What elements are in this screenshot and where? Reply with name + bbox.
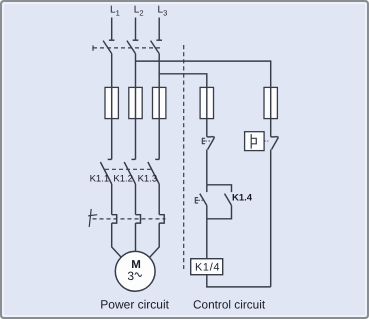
contactor main contact K1.1	[100, 159, 111, 184]
svg-text:K1/4: K1/4	[195, 262, 220, 274]
contactor coil K1/4	[191, 259, 223, 275]
fuse F2 (L2)	[129, 87, 142, 118]
wire pole3 switch to fuse	[158, 54, 160, 88]
wire branch L3 to control left rail	[159, 74, 207, 88]
label K1.4	[232, 192, 253, 203]
svg-text:K1.3: K1.3	[138, 174, 158, 185]
svg-text:Power circuit: Power circuit	[100, 297, 169, 311]
wire fuse3 to contact K1.3	[158, 119, 160, 160]
stop pushbutton (NC contact)	[202, 136, 214, 149]
overload trip device box	[245, 132, 269, 151]
contactor contacts mechanical link (dashed)	[105, 168, 153, 170]
wire overload1 to motor	[112, 223, 122, 257]
disconnect switch pole 1	[103, 40, 114, 53]
overload trip actuator symbol	[88, 209, 97, 227]
svg-text:K1.1: K1.1	[90, 174, 110, 185]
label K1.2	[113, 174, 133, 185]
wire start rail gap	[206, 185, 208, 192]
thermal overload element (L2)	[136, 215, 141, 223]
start pushbutton (NO contact)	[195, 194, 207, 206]
start branch bottom wire	[207, 205, 232, 218]
wire coil to right rail	[207, 275, 271, 287]
wire pole1 switch to fuse	[111, 54, 113, 88]
wire L1 drop	[111, 18, 113, 41]
wire L3 drop	[158, 18, 160, 41]
caption Power circuit	[100, 297, 169, 311]
dashed separator power/control	[183, 45, 185, 269]
thermal overload element (L1)	[112, 215, 117, 223]
wire overload2 to motor	[135, 223, 137, 251]
wire overload3 to motor	[150, 223, 160, 257]
supply terminal label L3	[158, 5, 168, 18]
label K1.3	[138, 174, 158, 185]
switch mechanical link (dashed) with handle	[93, 45, 161, 50]
svg-text:Control circuit: Control circuit	[193, 297, 266, 311]
svg-text:K1.2: K1.2	[113, 174, 133, 185]
wire stop button to start branch	[206, 150, 208, 185]
wire right rail fuse to overload contact	[270, 119, 272, 137]
motor M 3~	[115, 251, 155, 291]
caption Control circuit	[193, 297, 266, 311]
disconnect switch pole 3	[151, 40, 162, 53]
fuse F1 (L1)	[105, 87, 118, 118]
disconnect switch pole 2	[127, 40, 138, 53]
wire K1.1 to overload	[111, 184, 113, 215]
svg-text:K1.4: K1.4	[232, 192, 253, 203]
wire pole2 switch to fuse	[135, 54, 137, 88]
wire right rail down	[270, 150, 272, 287]
wire L2 drop	[135, 18, 137, 41]
overload trip contact (NC)	[271, 136, 279, 149]
wire fuse2 to contact K1.2	[135, 119, 137, 160]
supply terminal label L1	[110, 5, 120, 18]
contactor main contact K1.2	[124, 159, 135, 184]
fuse F5 (control right)	[264, 87, 277, 118]
fuse F4 (control left)	[200, 87, 213, 118]
supply terminal label L2	[134, 5, 144, 18]
wire left rail fuse to stop button	[206, 119, 208, 137]
fuse F3 (L3)	[153, 87, 166, 118]
wire start button down to coil	[206, 205, 208, 258]
wire K1.3 to overload	[158, 184, 160, 215]
contactor main contact K1.3	[148, 159, 159, 184]
auxiliary contact K1.4 (NO)	[225, 194, 232, 206]
svg-text:3: 3	[127, 269, 134, 283]
start branch top wire	[207, 185, 232, 192]
wire fuse1 to contact K1.1	[111, 119, 113, 160]
label K1.1	[90, 174, 110, 185]
wire K1.2 to overload	[135, 184, 137, 215]
wire branch L2 to control right rail	[136, 61, 271, 88]
thermal overload element (L3)	[159, 215, 164, 223]
overload trip link (dashed)	[93, 218, 166, 220]
